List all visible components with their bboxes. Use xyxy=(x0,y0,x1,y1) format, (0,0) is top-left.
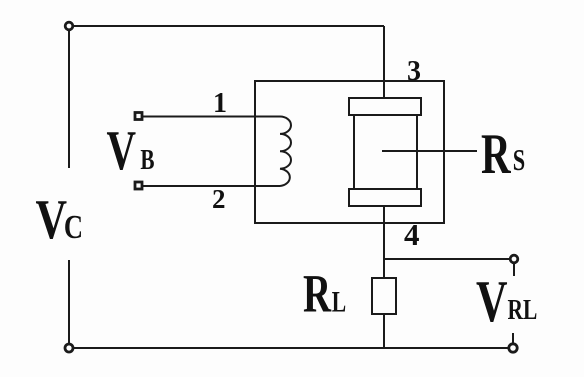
reed switch RS body xyxy=(354,115,417,189)
wire left rail upper segment xyxy=(68,26,70,168)
label VB xyxy=(107,119,155,182)
resistor RL body xyxy=(372,278,396,314)
wire pin 1 lead xyxy=(140,116,280,118)
reed switch RS bottom cap xyxy=(349,189,421,206)
wire branch to VRL top terminal xyxy=(384,258,514,260)
wire bottom rail xyxy=(69,347,514,349)
node bottom-left junction xyxy=(65,344,73,352)
svg-text:2: 2 xyxy=(212,184,226,214)
wire VRL bottom stub xyxy=(512,333,514,345)
wire pin 2 lead xyxy=(140,185,280,187)
relay package box xyxy=(255,81,444,223)
wire left rail lower segment xyxy=(68,260,70,348)
svg-text:RL: RL xyxy=(303,264,346,324)
svg-text:1: 1 xyxy=(213,88,227,119)
svg-text:3: 3 xyxy=(407,56,421,87)
node VRL top terminal xyxy=(510,255,518,263)
node VRL bottom terminal xyxy=(509,344,517,352)
leader line to RS label xyxy=(382,150,477,152)
reed switch RS top cap xyxy=(349,98,421,115)
svg-text:4: 4 xyxy=(404,217,420,252)
label VC xyxy=(36,188,84,250)
svg-text:VC: VC xyxy=(36,188,84,250)
svg-text:RS: RS xyxy=(481,123,525,186)
svg-text:VRL: VRL xyxy=(476,270,537,335)
wire resistor bottom to bottom rail xyxy=(383,314,385,348)
label VRL xyxy=(476,270,537,335)
wire pin 4 vertical down to resistor xyxy=(383,206,385,278)
node VC top-left junction xyxy=(65,22,73,30)
relay coil xyxy=(280,116,291,186)
svg-text:VB: VB xyxy=(107,119,155,182)
label RS xyxy=(481,123,525,186)
node terminal pin 1 xyxy=(135,113,142,120)
node terminal pin 2 xyxy=(135,182,142,189)
wire VRL top stub xyxy=(513,262,515,276)
wire top rail from node VC+ to pin3 drop xyxy=(69,25,384,27)
label RL xyxy=(303,264,346,324)
wire pin 3 vertical drop into reed switch xyxy=(383,26,385,99)
